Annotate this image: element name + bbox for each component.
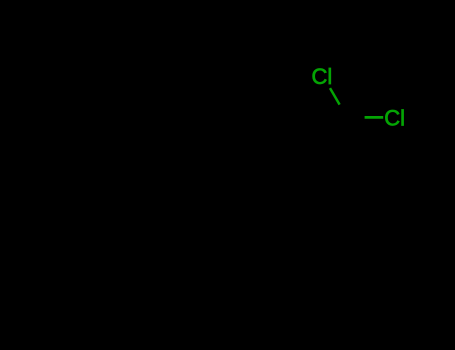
svg-text:Cl: Cl	[384, 105, 405, 130]
svg-text:Cl: Cl	[312, 64, 333, 89]
